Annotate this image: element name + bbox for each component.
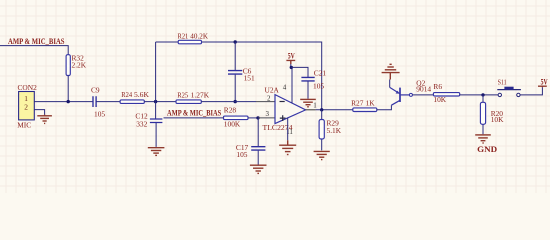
ground op-amp bottom: [279, 140, 296, 154]
resistor R32: [66, 55, 70, 76]
wire R6 to S11: [460, 94, 498, 96]
ground GND (R20): [475, 135, 491, 143]
svg-text:R21: R21: [178, 32, 189, 41]
Q2 collector wire: [389, 80, 391, 88]
ground CON2 pin2: [37, 115, 52, 124]
wire R29 stem: [321, 110, 323, 151]
op-amp power pin top: [291, 67, 293, 103]
svg-text:105: 105: [94, 110, 105, 119]
svg-text:332: 332: [136, 120, 147, 129]
node junction R32/main: [67, 100, 70, 103]
resistor R24: [120, 100, 144, 104]
wire R27 to Q2: [377, 105, 392, 110]
wire S11 to 5V: [520, 87, 542, 95]
node C6 bottom junction: [234, 100, 237, 103]
wire C21 bottom: [307, 81, 309, 98]
ground C21: [300, 99, 316, 106]
wire C17 bottom: [257, 151, 259, 165]
svg-text:S11: S11: [498, 77, 507, 86]
ground R29: [314, 151, 330, 159]
svg-text:3: 3: [266, 110, 270, 118]
svg-text:C21: C21: [314, 69, 327, 78]
pin 1 output lead: [306, 109, 316, 111]
wire pin2 to ground: [34, 110, 44, 115]
transistor Q2: [390, 87, 410, 105]
wire Q2 base to R6: [412, 94, 433, 96]
svg-text:105: 105: [236, 150, 247, 159]
wire 5V to C21: [291, 67, 308, 77]
svg-text:5.1K: 5.1K: [327, 126, 342, 135]
wire C9 to R24: [96, 101, 120, 103]
svg-text:R24: R24: [121, 90, 132, 99]
svg-text:2: 2: [24, 102, 28, 111]
wire node A up to top rail: [155, 42, 157, 102]
svg-text:10K: 10K: [491, 115, 504, 124]
capacitor C9: [93, 96, 96, 107]
svg-text:CON2: CON2: [18, 83, 38, 92]
svg-text:4: 4: [283, 84, 287, 92]
node C6 top junction: [234, 40, 237, 43]
svg-text:AMP & MIC_BIAS: AMP & MIC_BIAS: [8, 36, 65, 46]
capacitor C17: [251, 147, 265, 150]
svg-text:9014: 9014: [416, 85, 431, 94]
capacitor C6: [228, 71, 242, 75]
svg-text:5V: 5V: [541, 77, 548, 86]
wire R25 to op-amp pin2: [201, 101, 256, 103]
wire output to R27: [316, 109, 353, 111]
svg-text:C9: C9: [91, 86, 100, 95]
svg-text:R25: R25: [177, 90, 188, 99]
wire C6 stem top: [234, 42, 236, 70]
resistor R29: [319, 120, 324, 140]
ground C17: [250, 165, 267, 173]
svg-text:AMP & MIC_BIAS: AMP & MIC_BIAS: [167, 108, 221, 118]
wire C17 stem: [257, 118, 259, 146]
ground Q2 collector (inverted earth): [382, 64, 400, 79]
pin 2 lead: [256, 101, 275, 103]
resistor R20: [480, 102, 485, 124]
op-amp power pin bottom: [287, 118, 289, 141]
resistor R6: [433, 93, 459, 96]
svg-text:5.6K: 5.6K: [134, 90, 150, 99]
svg-text:1.27K: 1.27K: [191, 90, 210, 99]
svg-text:R28: R28: [224, 105, 237, 114]
node output junction: [320, 108, 323, 111]
svg-text:100K: 100K: [224, 119, 241, 128]
svg-text:10K: 10K: [433, 95, 446, 104]
wire main row: CON2 pin1 to C9: [34, 101, 93, 103]
wire R32 bottom: [67, 76, 69, 102]
svg-text:MIC: MIC: [17, 120, 31, 129]
wire C12 stem bottom: [155, 123, 157, 147]
wire R24 to node: [144, 101, 176, 103]
node 5V junction: [290, 66, 293, 69]
node C17 junction: [256, 116, 259, 119]
wire R20 stem: [482, 95, 484, 134]
resistor R21: [178, 40, 201, 44]
wire C6 stem bottom: [234, 75, 236, 102]
wire R28 to pin3: [248, 117, 258, 119]
wire C12 stem top: [155, 102, 157, 119]
svg-text:U2A: U2A: [265, 85, 280, 94]
svg-text:R6: R6: [433, 82, 442, 91]
ground C12: [148, 148, 165, 156]
resistor R25: [176, 100, 201, 104]
svg-text:151: 151: [244, 73, 255, 82]
capacitor C21: [301, 77, 314, 81]
pin 3 lead: [258, 117, 275, 119]
capacitor C12: [150, 119, 163, 123]
svg-text:2.2K: 2.2K: [72, 61, 87, 70]
resistor R28: [224, 116, 249, 120]
svg-text:40.2K: 40.2K: [190, 32, 208, 41]
svg-text:105: 105: [313, 82, 324, 91]
svg-text:5V: 5V: [288, 52, 295, 61]
wire net1 to R32: [0, 46, 68, 55]
node R20 junction: [481, 93, 484, 96]
resistor R27: [353, 108, 377, 112]
op-amp U2A: [275, 95, 306, 124]
svg-text:1K: 1K: [366, 98, 376, 107]
svg-text:GND: GND: [477, 145, 497, 154]
svg-text:R27: R27: [351, 98, 364, 107]
wire net2 to R28: [164, 117, 224, 119]
node A junction: [154, 100, 157, 103]
svg-text:2: 2: [267, 94, 271, 102]
svg-text:1: 1: [313, 102, 317, 110]
wire top feedback rail: [156, 42, 322, 110]
